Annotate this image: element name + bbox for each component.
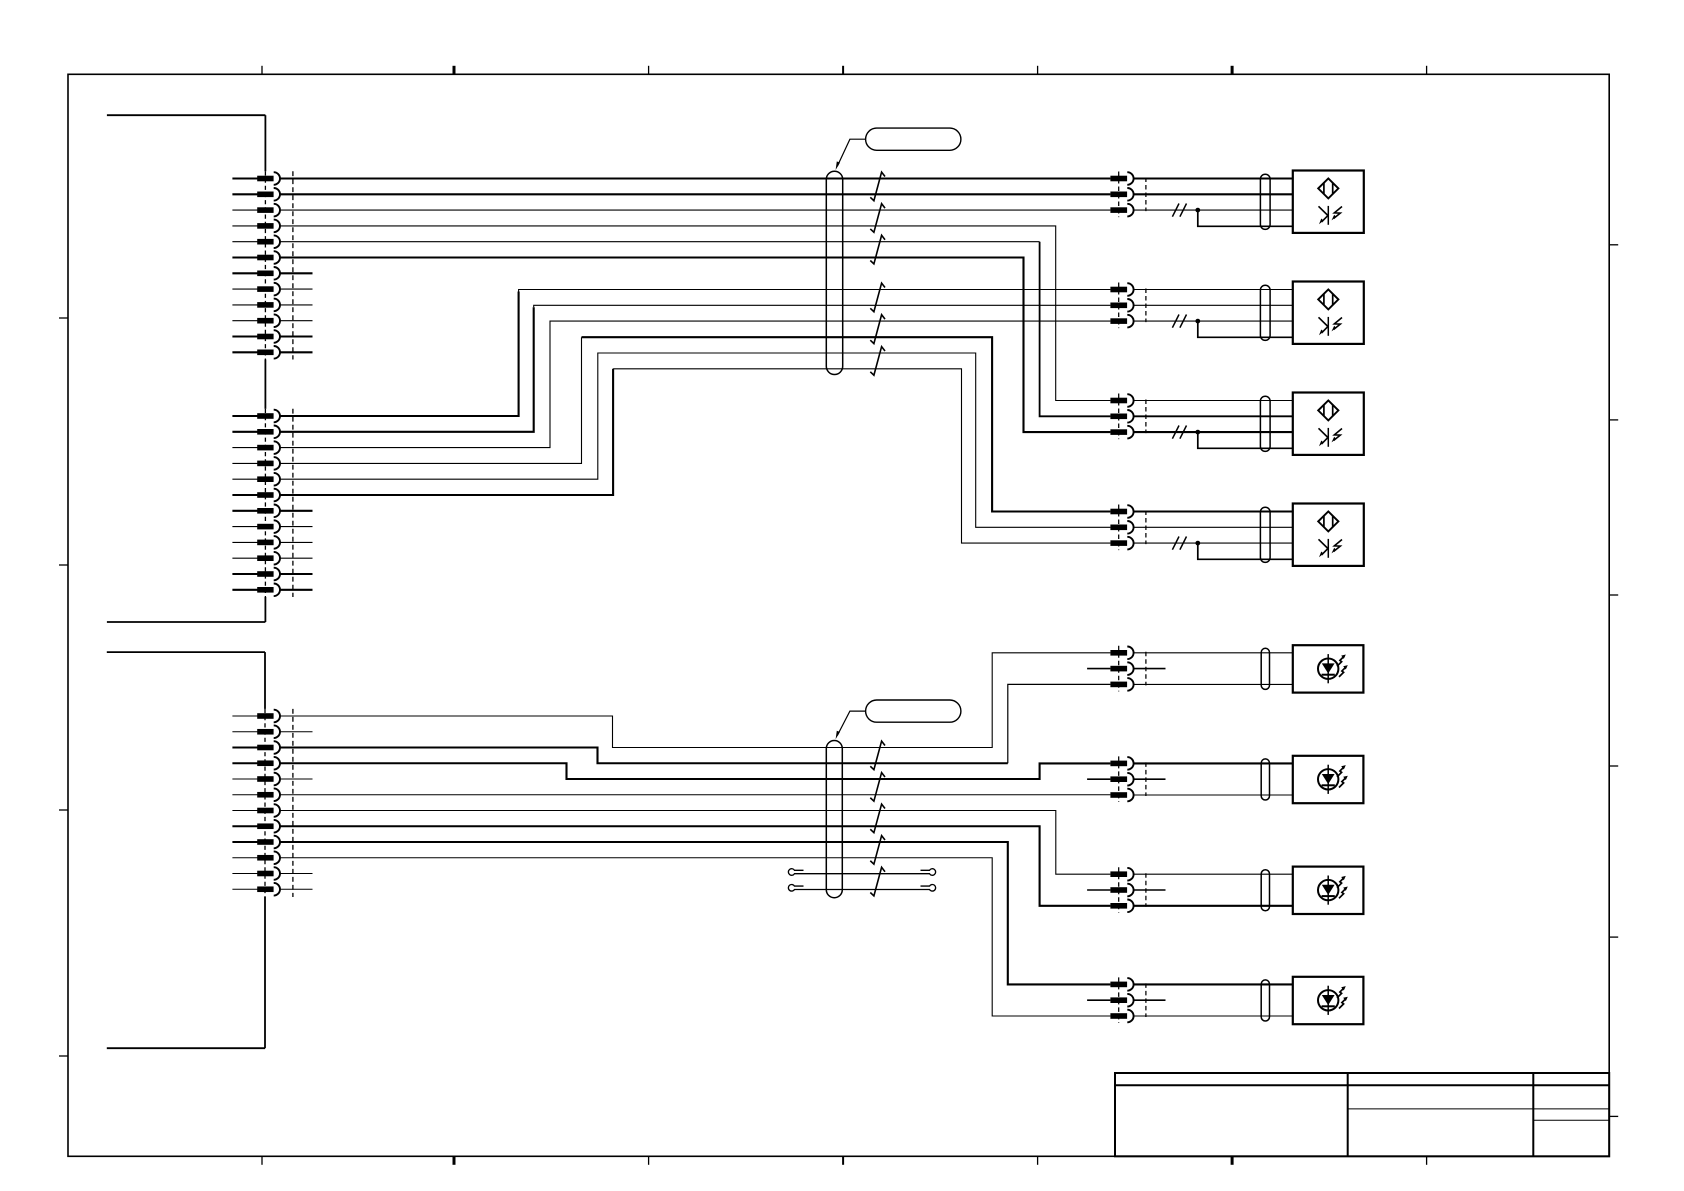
pin J1-A4 [232,220,280,233]
pin J2-2 [232,725,280,738]
wire stub pin J1-A9 [280,304,313,306]
emitter E1 cable end capsule [1261,648,1269,689]
sensor B1 body [1293,171,1364,233]
sensor B1 insert dashed line [1145,178,1147,212]
sensor B4 pin3 contact [1110,537,1133,550]
sensor B4 screen twist marks [1172,537,1179,550]
wire sensor B4 pin3 lead [1134,542,1293,544]
wire sensor B2 pin3 lead [1134,320,1293,322]
sensor B2 connector dashed line [1118,283,1120,329]
emitter E1 insert dashed line [1145,652,1147,686]
sensor B3 pin3 contact [1110,426,1133,439]
wire emitter E4 pin3 lead [1134,1015,1293,1017]
sensor B3 receiver symbol [1319,428,1343,447]
wire J1-B4 to sensor B4 pin1 [280,337,582,463]
wire sensor B1 pin3 lead [1134,209,1293,211]
emitter E1 pin1 contact [1110,647,1133,660]
pin J1-B10 [232,552,280,565]
sensor B2 reflector diamond symbol [1318,289,1338,309]
pin J2-4 [232,757,280,770]
wire stub pin J2-11 [280,873,313,875]
cable W2 shield capsule [826,741,842,898]
wire J2-1 to emitter E1 pin1 [280,653,1110,748]
wire sensor B3 pin3 lead [1134,431,1293,433]
emitter E1 pin3 contact [1110,678,1133,691]
pin J2-12 [232,883,280,896]
cable W1 twisted-pair mark 2 [870,204,885,233]
emitter E3 pin2 stub [1134,889,1166,891]
emitter E1 body [1293,645,1364,692]
wire emitter E4 pin1 lead [1134,983,1293,985]
wire J1-B3 to sensor B2 pin3 [280,321,1110,448]
wire stub pin J1-B12 [280,589,313,591]
sensor B3 reflector diamond symbol [1318,400,1338,420]
connector J1 group B insert dashed line [292,409,294,597]
junction dot on sensor B1 screen [1195,208,1200,213]
emitter E2 connector dashed line [1118,756,1120,802]
sensor B3 insert dashed line [1145,400,1147,434]
sensor B1 screen twist marks [1172,204,1179,217]
wire emitter E2 pin3 lead [1134,794,1293,796]
wire stub pin J1-A7 [280,272,313,274]
emitter E2 pin2 contact (unused) [1087,773,1134,786]
emitter E4 connector dashed line [1118,977,1120,1023]
wire stub pin J2-5 [280,778,313,780]
cable W1 twisted-pair mark 3 [870,235,885,264]
wire stub pin J1-A8 [280,288,313,290]
wire emitter E3 pin1 lead [1134,873,1293,875]
wire J2-10 to emitter E4 pin3 [280,858,1110,1016]
sensor B1 pin2 contact [1110,188,1133,201]
pin J1-A10 [232,314,280,327]
wire sensor B1 pin1 lead [1134,177,1293,179]
wire sensor B1 pin2 lead [1134,193,1293,195]
wire J1-B5 to sensor B4 pin2 [280,353,1110,527]
sensor B3 pin2 contact [1110,410,1133,423]
emitter E2 pin1 contact [1110,757,1133,770]
sensor B4 reflector diamond symbol [1318,511,1338,531]
pin J1-B8 [232,520,280,533]
sensor B1 pin1 contact [1110,172,1133,185]
sensor B3 cable end capsule [1260,396,1270,451]
pin J1-B7 [232,505,280,518]
pin J1-A3 [232,204,280,217]
wire sensor B2 pin1 lead [1134,289,1293,291]
sensor B4 cable end capsule [1260,507,1270,562]
wire stub pin J1-B7 [280,510,313,512]
emitter E2 body [1293,756,1364,803]
pin J1-A9 [232,299,280,312]
cable W2 twisted-pair mark 1 [870,741,885,770]
wire sensor B2 screen drain [1198,321,1293,337]
cable W1 twisted-pair mark 5 [870,315,885,344]
wire stub pin J1-B11 [280,573,313,575]
connector J2 body (bottom multi-pin connector) [107,652,265,1048]
emitter E4 LED symbol [1318,986,1348,1015]
wire J1-A4 to sensor B3 pin1 [280,226,1110,401]
emitter E2 pin2 stub [1134,778,1166,780]
pin J2-7 [232,804,280,817]
wire J1-A1 to sensor B1 pin1 [280,177,1110,179]
wire sensor B4 screen drain [1198,543,1293,559]
pin J1-B12 [232,584,280,597]
wire sensor B4 pin2 lead [1134,526,1293,528]
sensor B4 insert dashed line [1145,511,1147,545]
wire J1-B2 to sensor B2 pin2 [280,307,534,432]
wire J2-3 to emitter E1 pin3 [280,748,1008,764]
wire emitter E2 pin1 lead [1134,762,1293,764]
emitter E2 insert dashed line [1145,762,1147,796]
pin J2-3 [232,741,280,754]
wire J2-9 to emitter E4 pin1 [280,842,1110,984]
emitter E4 insert dashed line [1145,983,1147,1017]
emitter E4 pin3 contact [1110,1010,1133,1023]
sensor B3 body [1293,393,1364,455]
connector J2 insert dashed line [292,709,294,897]
sensor B2 insert dashed line [1145,289,1147,323]
cable W1 twisted-pair mark 1 [870,172,885,201]
wire J2-4 to emitter E2 pin1 [280,763,1110,779]
pin J1-B4 [232,457,280,470]
pin J1-B3 [232,441,280,454]
sensor B3 screen twist marks [1172,426,1179,439]
wire stub pin J1-B9 [280,541,313,543]
wire J1-A6 to sensor B3 pin3 [280,258,1110,433]
wire J2-6 to emitter E2 pin3 [280,794,1110,796]
wire emitter E1 pin3 lead [1134,683,1293,685]
emitter E3 cable end capsule [1261,870,1269,911]
pin J1-A7 [232,267,280,280]
emitter E4 pin2 stub [1134,999,1166,1001]
emitter E3 pin3 contact [1110,900,1133,913]
pin J1-B1 [232,410,280,423]
wire J1-A5 to sensor B3 pin2 [280,241,1040,243]
emitter E3 LED symbol [1318,876,1348,905]
pin J1-B11 [232,568,280,581]
emitter E3 insert dashed line [1145,873,1147,907]
emitter E3 body [1293,867,1364,914]
sensor B2 cable end capsule [1260,285,1270,340]
cable W1 callout balloon [866,128,961,150]
sensor B1 pin3 contact [1110,204,1133,217]
title block [1115,1073,1609,1156]
sensor B3 connector dashed line [1118,394,1120,440]
sensor B1 connector dashed line [1118,172,1120,218]
wire emitter E3 pin3 lead [1134,905,1293,907]
wire sensor B3 pin2 lead [1134,415,1293,417]
emitter E3 pin1 contact [1110,868,1133,881]
sensor B2 pin2 contact [1110,299,1133,312]
cable W2 twisted-pair mark 5 [870,867,885,896]
pin J2-9 [232,836,280,849]
emitter E4 body [1293,977,1364,1024]
wire stub pin J1-A12 [280,351,313,353]
junction dot on sensor B2 screen [1195,319,1200,324]
junction dot on sensor B3 screen [1195,430,1200,435]
wire J2-7 to emitter E3 pin1 [280,811,1110,875]
wire stub pin J2-12 [280,888,313,890]
emitter E4 cable end capsule [1261,980,1269,1021]
emitter E4 pin2 contact (unused) [1087,994,1134,1007]
cable W2 spare conductor 2 [788,885,935,892]
sensor B1 cable end capsule [1260,174,1270,229]
frame fold marks bottom edge [262,1156,1427,1165]
emitter E1 connector dashed line [1118,646,1120,692]
wire emitter E1 pin1 lead [1134,652,1293,654]
connector J1 group A insert dashed line [292,171,294,359]
sensor B2 receiver symbol [1319,317,1343,336]
sensor B2 body [1293,282,1364,344]
pin J2-5 [232,773,280,786]
pin J1-A6 [232,251,280,264]
sensor B3 pin1 contact [1110,394,1133,407]
sensor B4 body [1293,504,1364,566]
sensor B4 pin2 contact [1110,521,1133,534]
sensor B1 reflector diamond symbol [1318,178,1338,198]
emitter E3 connector dashed line [1118,867,1120,913]
sensor B2 pin1 contact [1110,283,1133,296]
wire stub pin J2-2 [280,731,313,733]
wire J1-A3 to sensor B1 pin3 [280,209,1110,211]
connector J1 body (top multi-pin connector) [107,115,266,622]
emitter E4 pin1 contact [1110,978,1133,991]
sensor B4 connector dashed line [1118,505,1120,551]
pin J2-1 [232,710,280,723]
wire J2-8 to emitter E3 pin3 [280,826,1110,906]
cable W1 twisted-pair mark 4 [870,283,885,312]
frame fold marks left edge [59,318,68,1056]
frame fold marks top edge [262,66,1427,75]
wire sensor B2 pin2 lead [1134,304,1293,306]
wire J1-A2 to sensor B1 pin2 [280,193,1110,195]
emitter E2 pin3 contact [1110,789,1133,802]
wire sensor B1 screen drain [1198,210,1293,226]
emitter E2 LED symbol [1318,765,1348,794]
pin J1-A2 [232,188,280,201]
cable W1 twisted-pair mark 6 [870,347,885,376]
pin J1-A1 [232,172,280,185]
sensor B1 receiver symbol [1319,206,1343,225]
cable W1 shield capsule [826,171,842,374]
emitter E1 pin2 contact (unused) [1087,662,1134,675]
cable W2 callout balloon [866,700,961,722]
pin J1-A11 [232,330,280,343]
wire sensor B3 screen drain [1198,432,1293,448]
frame fold marks right edge [1609,245,1618,1117]
pin J2-6 [232,788,280,801]
pin J2-11 [232,867,280,880]
wire stub pin J1-B8 [280,526,313,528]
pin J2-8 [232,820,280,833]
wire stub pin J1-B10 [280,557,313,559]
pin J1-B6 [232,489,280,502]
sensor B4 pin1 contact [1110,505,1133,518]
emitter E3 pin2 contact (unused) [1087,884,1134,897]
wire J1-B6 to sensor B4 pin3 [280,369,613,495]
cable W2 twisted-pair mark 3 [870,804,885,833]
sensor B4 receiver symbol [1319,539,1343,558]
pin J1-A8 [232,283,280,296]
pin J1-A5 [232,235,280,248]
pin J2-10 [232,851,280,864]
emitter E1 LED symbol [1318,654,1348,683]
pin J1-B9 [232,536,280,549]
wire stub pin J1-A10 [280,320,313,322]
emitter E2 cable end capsule [1261,759,1269,800]
junction dot on sensor B4 screen [1195,541,1200,546]
cable W2 twisted-pair mark 2 [870,773,885,802]
wire stub pin J1-A11 [280,335,313,337]
cable W2 spare conductor 1 [788,869,935,876]
sensor B2 pin3 contact [1110,315,1133,328]
pin J1-B2 [232,426,280,439]
cable W2 twisted-pair mark 4 [870,836,885,865]
emitter E1 pin2 stub [1134,668,1166,670]
pin J1-B5 [232,473,280,486]
sensor B2 screen twist marks [1172,315,1179,328]
wire sensor B3 pin1 lead [1134,400,1293,402]
pin J1-A12 [232,346,280,359]
wire sensor B4 pin1 lead [1134,510,1293,512]
wire J1-B1 to sensor B2 pin1 [280,292,519,417]
